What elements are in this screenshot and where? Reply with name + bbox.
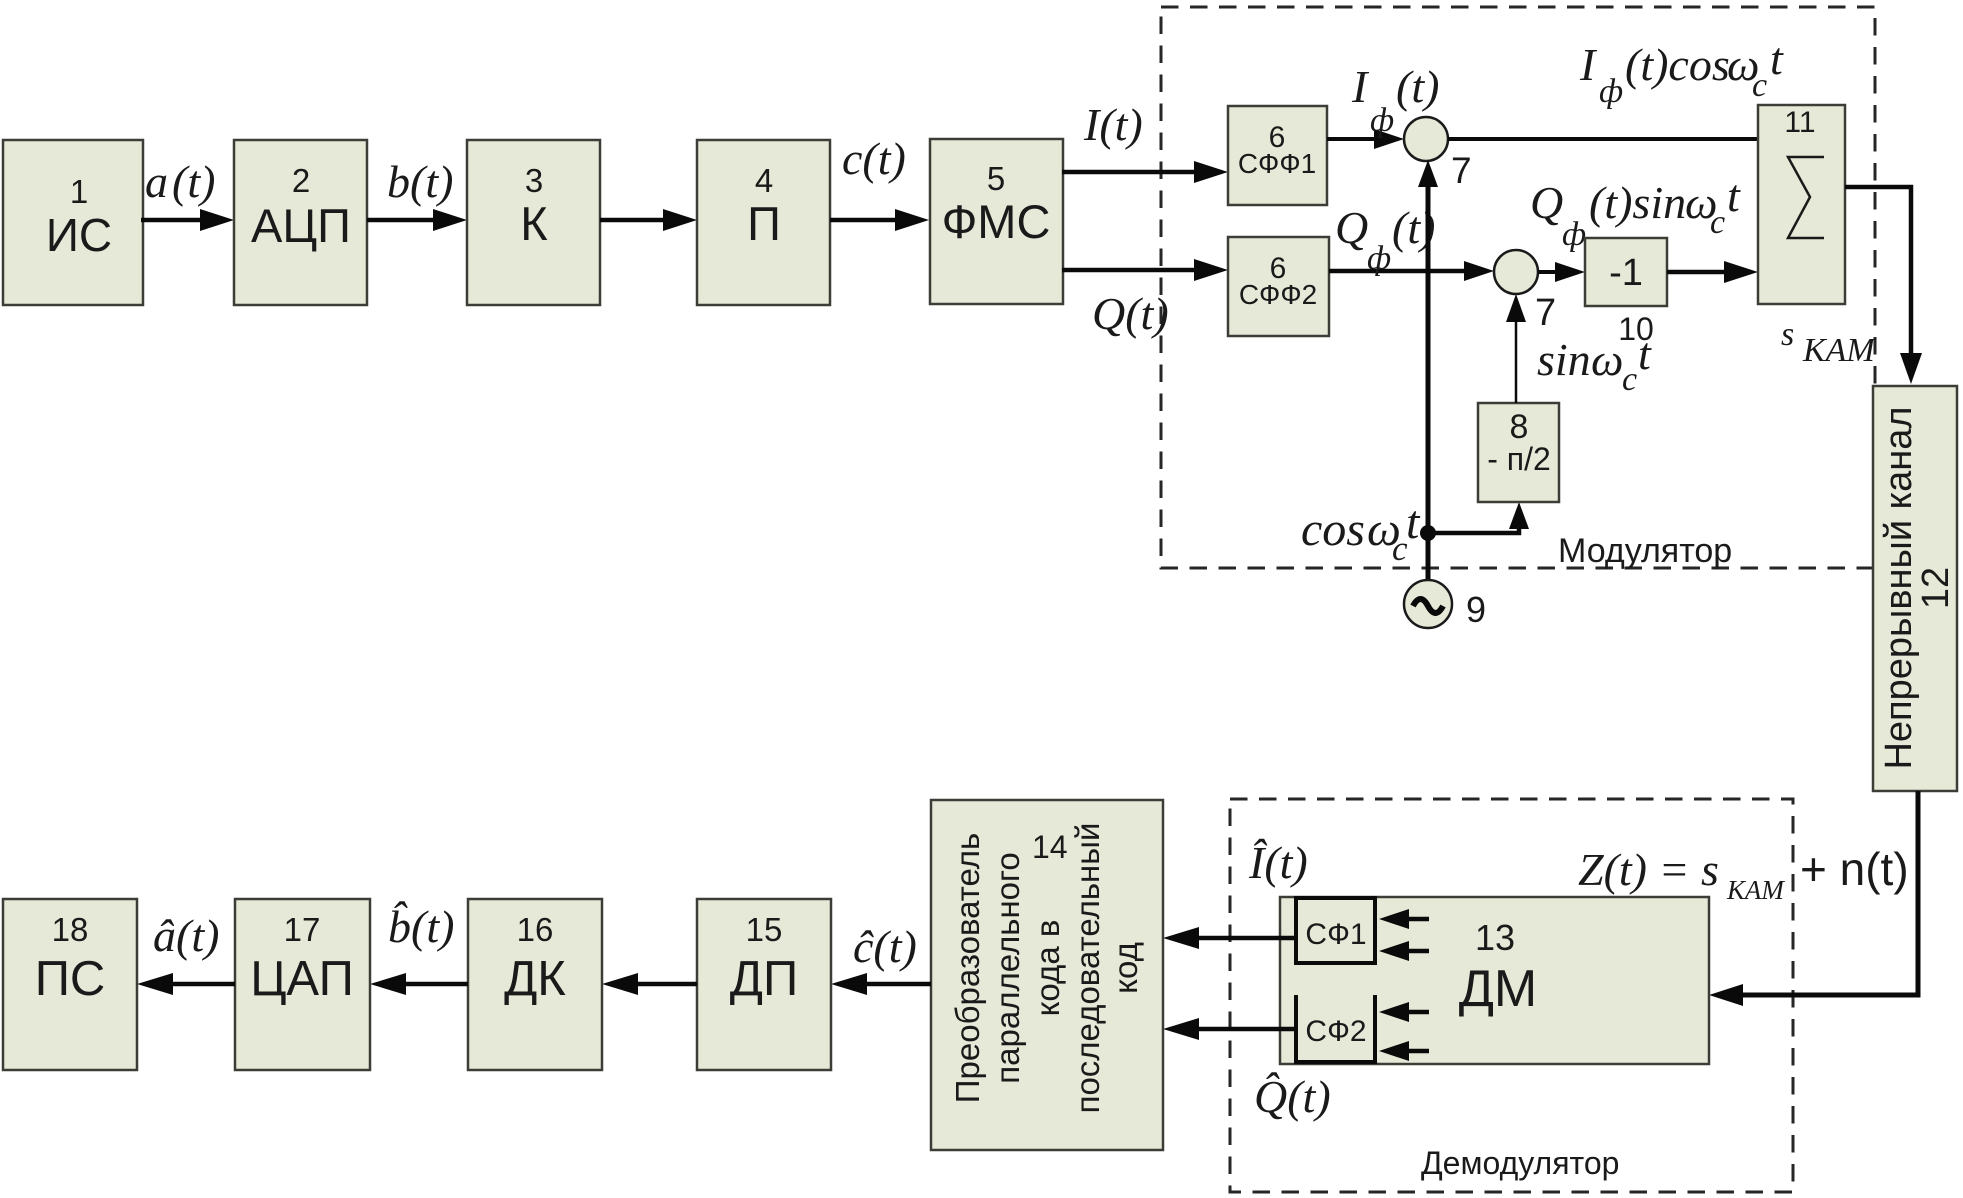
demodulator dashed box (1230, 799, 1793, 1192)
wire SFF1 to multiplier 7a (1327, 61, 1439, 149)
label Q hat (t) (1254, 1071, 1331, 1122)
wire I(t) B5 to SFF1 (1062, 99, 1228, 183)
label I hat (t) (1248, 837, 1308, 888)
block СФ1 (1296, 898, 1375, 963)
svg-text:5: 5 (987, 160, 1005, 197)
svg-text:I: I (1351, 61, 1370, 112)
svg-text:t: t (1406, 496, 1421, 549)
svg-text:Непрерывный канал: Непрерывный канал (1878, 406, 1920, 769)
svg-text:-1: -1 (1609, 252, 1643, 294)
svg-text:7: 7 (1535, 292, 1556, 334)
svg-text:17: 17 (284, 911, 321, 948)
svg-text:СФ1: СФ1 (1305, 918, 1366, 951)
svg-text:кода в: кода в (1029, 920, 1066, 1017)
svg-text:(t): (t) (1396, 61, 1439, 112)
block СФ2 (1296, 995, 1375, 1062)
wire SFF2 to multiplier 7b (1329, 202, 1494, 281)
block 13 ДМ (1280, 897, 1709, 1064)
svg-text:Модулятор: Модулятор (1558, 532, 1732, 570)
block 1 ИС (3, 140, 143, 305)
block 3 К (467, 140, 600, 305)
svg-text:c: c (1622, 361, 1637, 398)
svg-text:последовательный: последовательный (1069, 823, 1106, 1114)
wire b(t) arrow B2 to B3 (367, 156, 467, 231)
wire block 15 to 16 (602, 973, 697, 995)
block 6 СФФ2 (1228, 237, 1329, 336)
wire multiplier 7b to block 10 (1538, 262, 1585, 282)
svg-text:Q: Q (1530, 177, 1563, 228)
block 8 (-pi/2) (1478, 403, 1559, 502)
wire arrow B3 to B4 (600, 209, 697, 231)
svg-text:Q: Q (1335, 202, 1368, 253)
svg-text:(t)cos: (t)cos (1625, 39, 1730, 90)
svg-text:t: t (1638, 328, 1652, 379)
block 17 ЦАП (235, 899, 370, 1070)
label Z(t)=s_KAM+n(t) (1578, 843, 1909, 905)
svg-text:4: 4 (755, 162, 773, 199)
svg-text:Î(t): Î(t) (1248, 837, 1308, 888)
svg-text:2: 2 (292, 162, 310, 199)
arrows into СФ1 (1379, 909, 1429, 961)
wire summator to channel 12 (1845, 187, 1922, 384)
svg-text:СФФ1: СФФ1 (1238, 148, 1316, 179)
svg-text:параллельного: параллельного (989, 852, 1026, 1083)
block 10 (-1) (1585, 238, 1667, 347)
svg-text:ф: ф (1370, 102, 1394, 139)
svg-text:a: a (145, 156, 168, 207)
svg-text:Q(t): Q(t) (1092, 288, 1169, 339)
svg-text:- п/2: - п/2 (1487, 441, 1551, 477)
svg-text:1: 1 (70, 173, 88, 210)
svg-text:ДП: ДП (730, 952, 798, 1006)
svg-text:ФМС: ФМС (942, 195, 1051, 248)
svg-text:ф: ф (1367, 240, 1391, 277)
multiplier 7a circle (1404, 117, 1472, 191)
block 15 ДП (697, 899, 831, 1070)
svg-text:АЦП: АЦП (251, 199, 351, 252)
wire Q(t) B5 to SFF2 (1062, 259, 1228, 339)
wire b hat block 16 to 17 (370, 901, 468, 995)
wire c(t) arrow B4 to B5 (830, 133, 929, 231)
svg-text:Z(t) = s: Z(t) = s (1578, 844, 1719, 895)
svg-text:КАМ: КАМ (1726, 875, 1785, 905)
svg-text:К: К (520, 197, 548, 250)
svg-text:ĉ(t): ĉ(t) (853, 921, 917, 972)
svg-text:b(t): b(t) (387, 156, 453, 207)
svg-text:c: c (1752, 67, 1767, 104)
svg-text:ω: ω (1591, 334, 1623, 385)
svg-text:13: 13 (1475, 917, 1515, 958)
svg-text:18: 18 (52, 911, 89, 948)
label sin wct (1537, 328, 1652, 398)
arrows into СФ2 (1379, 1002, 1429, 1061)
svg-text:ЦАП: ЦАП (250, 952, 354, 1006)
svg-text:cos: cos (1301, 503, 1365, 556)
svg-text:14: 14 (1032, 829, 1068, 865)
svg-text:7: 7 (1451, 150, 1472, 191)
label Демодулятор (1421, 1145, 1619, 1181)
block 18 ПС (3, 899, 137, 1070)
svg-text:9: 9 (1466, 589, 1486, 630)
multiplier 7b circle (1494, 250, 1556, 334)
modulator dashed box (1161, 7, 1875, 568)
svg-text:t: t (1727, 170, 1741, 221)
block 12 Непрерывный канал (1873, 386, 1957, 791)
block 4 П (697, 140, 830, 305)
svg-text:П: П (747, 197, 781, 250)
label Qф(t)sinωct (1530, 170, 1741, 253)
wire a(t) arrow B1 to B2 (141, 156, 234, 231)
svg-text:15: 15 (746, 911, 783, 948)
svg-text:код: код (1107, 942, 1144, 994)
oscillator 9 (1404, 580, 1486, 630)
svg-text:ДК: ДК (504, 952, 566, 1006)
svg-text:I: I (1579, 39, 1598, 90)
block 6 СФФ1 (1228, 106, 1327, 205)
wire block 10 to summator (1667, 261, 1758, 283)
svg-text:11: 11 (1784, 106, 1815, 139)
svg-text:s: s (1781, 316, 1794, 353)
svg-text:КАМ: КАМ (1802, 332, 1876, 369)
svg-text:3: 3 (525, 162, 543, 199)
svg-text:СФФ2: СФФ2 (1239, 279, 1317, 310)
wire block 8 to multiplier 7b (1506, 294, 1526, 403)
svg-text:Q̂(t): Q̂(t) (1254, 1071, 1331, 1122)
wire СФ2 to block 14 (1163, 1018, 1296, 1040)
svg-text:b̂(t): b̂(t) (388, 901, 454, 952)
svg-text:â(t): â(t) (153, 910, 219, 961)
svg-text:ИС: ИС (46, 209, 112, 261)
oscillator vertical wire to multiplier 7a (1418, 160, 1438, 580)
svg-text:c(t): c(t) (842, 133, 906, 184)
label s KAM (1781, 316, 1876, 369)
label Модулятор (1558, 532, 1732, 570)
block 14 converter (931, 800, 1163, 1150)
svg-text:c: c (1710, 204, 1725, 241)
block 5 ФМС (930, 139, 1063, 304)
wire c hat block 14 to 15 (831, 921, 931, 995)
block 2 АЦП (234, 140, 367, 305)
wire a hat block 17 to 18 (137, 910, 235, 995)
svg-text:Преобразователь: Преобразователь (949, 833, 986, 1103)
svg-text:+ n(t): + n(t) (1800, 843, 1909, 895)
svg-text:(t): (t) (172, 156, 215, 207)
label cos wct (1301, 496, 1421, 568)
svg-text:I(t): I(t) (1083, 99, 1143, 150)
svg-text:(t)sin: (t)sin (1589, 177, 1686, 228)
wire junction to block 8 (1428, 502, 1529, 533)
svg-text:ф: ф (1599, 73, 1623, 110)
wire multiplier 7a to summator (1448, 33, 1784, 139)
wire СФ1 to block 14 (1163, 927, 1296, 949)
svg-text:16: 16 (517, 911, 554, 948)
svg-text:Демодулятор: Демодулятор (1421, 1145, 1619, 1181)
svg-text:ПС: ПС (35, 952, 106, 1006)
svg-text:t: t (1770, 33, 1784, 84)
svg-text:12: 12 (1915, 567, 1957, 609)
wire channel 12 to DM (1709, 791, 1918, 1006)
block 16 ДК (468, 899, 602, 1070)
summator block 11 (1758, 105, 1845, 304)
svg-text:СФ2: СФ2 (1305, 1015, 1366, 1048)
svg-text:sin: sin (1537, 334, 1591, 385)
junction node cos (1420, 525, 1436, 541)
svg-text:ф: ф (1562, 216, 1586, 253)
svg-text:ДМ: ДМ (1459, 960, 1538, 1018)
